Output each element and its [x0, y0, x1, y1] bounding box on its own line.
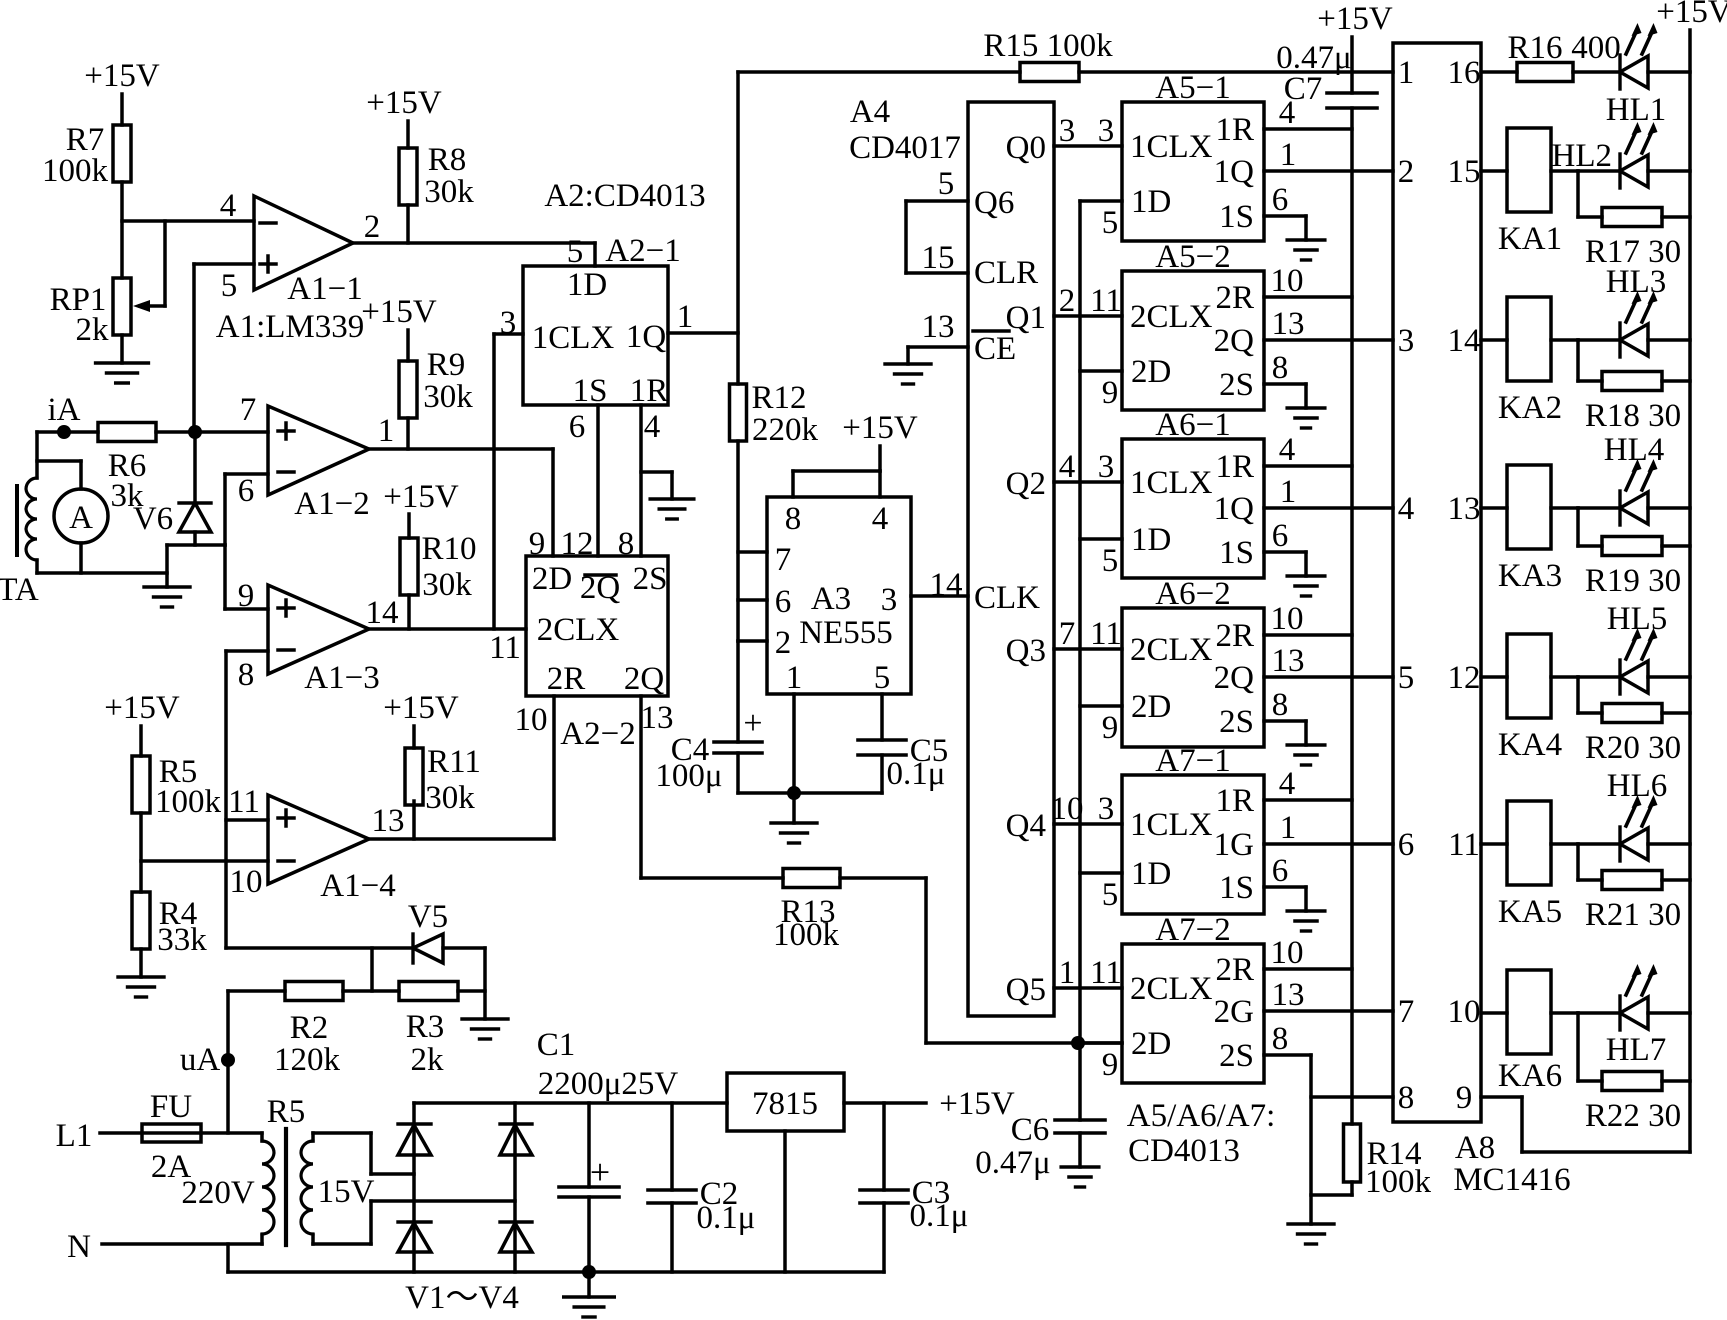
svg-text:+15V: +15V — [842, 410, 918, 446]
svg-text:1S: 1S — [1219, 535, 1254, 571]
wire KA3 to node — [1551, 506, 1578, 510]
pin 11 label — [1090, 283, 1122, 319]
wire HL4 to rail — [1648, 506, 1690, 510]
pin 4 label — [644, 409, 661, 445]
pin 6 label — [569, 409, 586, 445]
label A7-2 — [1155, 912, 1230, 948]
svg-text:1G: 1G — [1214, 827, 1254, 863]
label A6-1 — [1155, 407, 1230, 443]
wire Q2 to A6-1 CLX — [1054, 480, 1122, 484]
label A1-3 — [304, 660, 379, 696]
svg-text:V1～V4: V1～V4 — [405, 1280, 519, 1316]
svg-text:1: 1 — [1280, 137, 1297, 173]
svg-text:3: 3 — [500, 305, 517, 341]
svg-text:R12: R12 — [751, 380, 806, 416]
wire A8 to KA1 — [1481, 169, 1507, 173]
pin 11 label — [1090, 955, 1122, 991]
transformer primary 220V — [181, 1133, 274, 1244]
wire to A1-2 pin6 — [225, 474, 268, 545]
wire NE555 pin1 stub — [792, 694, 796, 793]
svg-text:3: 3 — [1098, 449, 1115, 485]
power +15V (C7) — [1317, 1, 1393, 93]
op-amp A1-2 — [268, 406, 369, 495]
svg-text:2k: 2k — [411, 1042, 445, 1078]
ground (C6) — [1061, 1167, 1099, 1187]
wire A6-1 1S to ground — [1264, 552, 1306, 576]
svg-text:+: + — [590, 1152, 610, 1192]
pin 10 label — [1271, 935, 1304, 971]
wire R22 to rail — [1662, 1079, 1690, 1083]
svg-text:KA4: KA4 — [1498, 727, 1562, 763]
svg-text:5: 5 — [1102, 205, 1119, 241]
svg-text:9: 9 — [1102, 1047, 1119, 1083]
pin 14 label — [366, 595, 399, 631]
svg-text:2CLX: 2CLX — [1130, 299, 1213, 335]
pin 1 label — [378, 413, 395, 449]
wire pin16 to R16 — [1481, 70, 1517, 74]
svg-text:Q3: Q3 — [1006, 633, 1046, 669]
svg-text:13: 13 — [1448, 491, 1481, 527]
ground (RP1) — [96, 363, 149, 383]
wire A1-4 output to 2R — [369, 696, 554, 839]
svg-text:220k: 220k — [752, 412, 819, 448]
svg-text:1: 1 — [677, 299, 694, 335]
flip-flop A6-2 (CD4013) — [1122, 608, 1264, 747]
power +15V (rail) — [1656, 0, 1727, 1152]
op-amp A1-1 — [254, 196, 353, 290]
pin 13 label — [641, 700, 674, 736]
pin 3 label — [1059, 113, 1076, 149]
svg-text:A: A — [69, 500, 93, 536]
svg-text:2k: 2k — [76, 312, 110, 348]
wire A1-4 pin11 — [226, 818, 268, 822]
svg-text:7815: 7815 — [752, 1086, 818, 1122]
svg-text:R19 30: R19 30 — [1585, 563, 1681, 599]
svg-text:2D: 2D — [1131, 1026, 1171, 1062]
svg-text:15: 15 — [922, 240, 955, 276]
ground (A6-1 1S) — [1287, 576, 1325, 596]
resistor R14 — [1344, 1124, 1432, 1200]
wire N — [67, 1229, 262, 1265]
pin 4 label — [1279, 432, 1296, 468]
svg-text:0.47μ: 0.47μ — [975, 1145, 1050, 1181]
pin 14 label — [930, 567, 963, 603]
wire R3 to ground — [458, 948, 485, 1019]
pin 5 label — [221, 268, 238, 304]
wire A5-1 1S to ground — [1264, 216, 1306, 240]
pin 13 label — [372, 803, 405, 839]
svg-text:+15V: +15V — [939, 1086, 1015, 1122]
resistor R20 — [1585, 704, 1681, 767]
wire HL1 to rail — [1648, 70, 1690, 74]
svg-text:8: 8 — [1272, 350, 1289, 386]
svg-text:9: 9 — [1102, 375, 1119, 411]
wire TA bottom — [37, 571, 167, 575]
svg-text:1CLX: 1CLX — [1130, 807, 1213, 843]
wire CE to ground — [908, 347, 968, 364]
svg-text:1Q: 1Q — [626, 319, 667, 355]
wire A1-3 pin9 — [225, 545, 268, 609]
wire data bus — [1078, 201, 1082, 1043]
svg-text:HL2: HL2 — [1552, 138, 1613, 174]
svg-text:+15V: +15V — [383, 479, 459, 515]
svg-text:10: 10 — [230, 864, 263, 900]
wire NE555 pin6 stub — [738, 598, 767, 602]
label CD4013 — [1128, 1133, 1240, 1169]
svg-text:A1:LM339: A1:LM339 — [216, 309, 365, 345]
flip-flop A5-1 (CD4013) — [1122, 102, 1264, 241]
fuse FU — [142, 1089, 201, 1185]
svg-text:R10: R10 — [421, 531, 476, 567]
label A6-2 — [1155, 576, 1230, 612]
wire NE555 pin5 stub — [880, 694, 884, 740]
wire NE555 pin2 stub — [738, 639, 767, 643]
svg-text:1S: 1S — [1219, 199, 1254, 235]
svg-text:400: 400 — [1571, 30, 1621, 66]
svg-text:FU: FU — [150, 1089, 192, 1125]
svg-text:8: 8 — [1272, 687, 1289, 723]
svg-text:7: 7 — [775, 542, 792, 578]
svg-text:5: 5 — [1102, 877, 1119, 913]
svg-text:14: 14 — [1448, 323, 1481, 359]
svg-text:11: 11 — [1448, 827, 1480, 863]
label A5-1 — [1155, 70, 1230, 106]
pin 6 label — [1272, 853, 1289, 889]
junction C1 bottom — [582, 1265, 596, 1279]
svg-text:R3: R3 — [406, 1009, 445, 1045]
svg-text:V6: V6 — [133, 501, 173, 537]
wire node to R19 — [1578, 508, 1602, 546]
wire node to R22 — [1578, 1013, 1602, 1081]
svg-text:KA3: KA3 — [1498, 558, 1562, 594]
pin 10 label — [1271, 601, 1304, 637]
diode V5 — [408, 899, 485, 963]
label A2-2 — [560, 716, 635, 752]
wire A5-1 1Q to A8 — [1264, 169, 1393, 173]
svg-text:13: 13 — [372, 803, 405, 839]
svg-text:8: 8 — [1272, 1021, 1289, 1057]
power +15V (R10) — [383, 479, 459, 538]
pin 5 label — [1102, 205, 1119, 241]
svg-text:MC1416: MC1416 — [1453, 1162, 1570, 1198]
svg-text:2D: 2D — [1131, 354, 1171, 390]
wire D bus to A6-2 2D — [1080, 704, 1122, 708]
svg-text:1: 1 — [378, 413, 395, 449]
svg-text:14: 14 — [366, 595, 399, 631]
relay KA2 — [1498, 297, 1562, 426]
wire D bus to A7-2 2D — [1080, 1041, 1122, 1045]
wire R12 to NE555 — [736, 441, 740, 641]
pin 6 label — [1272, 182, 1289, 218]
wire node to R17 — [1578, 171, 1602, 217]
wire 7815 output — [844, 1101, 926, 1105]
LED HL3 — [1578, 264, 1666, 357]
pin 8 label — [618, 526, 635, 562]
svg-text:1Q: 1Q — [1214, 154, 1255, 190]
LED HL1 — [1606, 23, 1667, 128]
svg-text:A2−1: A2−1 — [605, 233, 680, 269]
svg-text:5: 5 — [1102, 543, 1119, 579]
wire A8 to KA6 — [1481, 1011, 1507, 1015]
label MC1416 — [1453, 1162, 1570, 1198]
svg-text:4: 4 — [872, 501, 889, 537]
svg-text:30k: 30k — [423, 379, 473, 415]
svg-text:7: 7 — [1059, 616, 1076, 652]
power +15V (R9) — [361, 294, 437, 361]
svg-text:2Q: 2Q — [1214, 660, 1255, 696]
resistor R2 — [274, 982, 343, 1079]
wire R2-R3 junction — [370, 948, 374, 991]
svg-text:1: 1 — [1280, 810, 1297, 846]
svg-text:R8: R8 — [428, 142, 467, 178]
svg-text:A1−1: A1−1 — [287, 271, 362, 307]
capacitor C7 — [1276, 40, 1377, 108]
pin 12 label — [561, 526, 594, 562]
svg-text:R9: R9 — [427, 347, 466, 383]
wire A5-2 2S to ground — [1264, 384, 1306, 408]
wire KA4 to node — [1551, 675, 1578, 679]
wire A7-1 1S to ground — [1264, 887, 1306, 911]
diode V3 — [398, 1222, 431, 1252]
svg-text:7: 7 — [1398, 994, 1415, 1030]
pin 2 label — [364, 209, 381, 245]
svg-text:A8: A8 — [1455, 1130, 1495, 1166]
IC A4 CD4017 — [968, 102, 1054, 1016]
svg-text:R16: R16 — [1507, 30, 1562, 66]
ground (A5-2 2S) — [1287, 408, 1325, 428]
node iA — [48, 392, 81, 439]
svg-text:R20 30: R20 30 — [1585, 730, 1681, 766]
svg-text:V5: V5 — [408, 899, 448, 935]
svg-text:Q6: Q6 — [974, 185, 1014, 221]
pin 10 label — [515, 702, 548, 738]
label CD4017 — [849, 130, 961, 166]
svg-text:2Q: 2Q — [624, 661, 665, 697]
svg-text:L1: L1 — [56, 1118, 93, 1154]
pin 13 label — [1272, 643, 1305, 679]
svg-text:100k: 100k — [1365, 1164, 1432, 1200]
capacitor C1 — [537, 1027, 679, 1272]
wire R14 to ground — [1311, 1182, 1352, 1195]
flip-flop A6-1 (CD4013) — [1122, 439, 1264, 578]
svg-text:5: 5 — [567, 234, 584, 270]
relay KA5 — [1498, 801, 1562, 930]
svg-text:A1−4: A1−4 — [320, 868, 395, 904]
svg-text:1: 1 — [1398, 55, 1415, 91]
svg-text:5: 5 — [221, 268, 238, 304]
wire KA1 to node — [1551, 169, 1578, 173]
label A4 — [850, 94, 890, 130]
svg-text:100μ: 100μ — [655, 758, 722, 794]
ground (C1) — [564, 1272, 615, 1317]
svg-text:2S: 2S — [633, 561, 668, 597]
svg-text:1D: 1D — [1131, 856, 1171, 892]
wire D bus to A5-1 1D — [1080, 199, 1122, 203]
svg-text:2Q: 2Q — [1214, 323, 1255, 359]
svg-text:C7: C7 — [1284, 71, 1323, 107]
svg-text:A1−3: A1−3 — [304, 660, 379, 696]
pin 13 label — [1272, 977, 1305, 1013]
pin 8 label — [238, 657, 255, 693]
svg-text:KA6: KA6 — [1498, 1058, 1562, 1094]
wire 1Q to R12 line — [668, 331, 738, 335]
wire A7-2 2R to reset bus — [1264, 967, 1352, 971]
svg-text:1S: 1S — [1219, 870, 1254, 906]
pin 2 label — [1059, 283, 1076, 319]
power +15V (7815 out) — [939, 1086, 1015, 1122]
resistor R8 — [399, 142, 474, 243]
resistor R17 — [1585, 208, 1681, 271]
wire A5-2 2R to reset bus — [1264, 295, 1352, 299]
svg-text:C1: C1 — [537, 1027, 576, 1063]
resistor R18 — [1585, 372, 1681, 435]
junction R6 right — [188, 425, 202, 439]
svg-text:N: N — [67, 1229, 91, 1265]
svg-text:2S: 2S — [1219, 367, 1254, 403]
wire R7 to RP1 — [120, 182, 124, 278]
label A2:CD4013 — [544, 178, 705, 214]
pin 15 label — [922, 240, 955, 276]
pin 10 label — [1051, 791, 1084, 827]
flip-flop A2-1 — [523, 266, 668, 409]
svg-text:R15 100k: R15 100k — [983, 28, 1113, 64]
power +15V (R5) — [104, 690, 180, 756]
wire 1S to 2Q bar — [596, 405, 600, 556]
pin 6 label — [238, 473, 255, 509]
pin 8 label — [1272, 350, 1289, 386]
wire A6-1 1R to reset bus — [1264, 464, 1352, 468]
svg-text:13: 13 — [922, 309, 955, 345]
svg-text:5: 5 — [938, 166, 955, 202]
svg-text:TA: TA — [0, 572, 39, 608]
svg-text:CE: CE — [974, 331, 1016, 367]
svg-text:3: 3 — [1059, 113, 1076, 149]
svg-text:R22 30: R22 30 — [1585, 1098, 1681, 1134]
svg-text:15: 15 — [1448, 154, 1481, 190]
potentiometer RP1 — [50, 278, 165, 348]
svg-text:10: 10 — [1271, 601, 1304, 637]
wire DC- rail — [228, 1270, 884, 1274]
svg-text:2200μ25V: 2200μ25V — [538, 1066, 679, 1102]
wire NE555 bottom — [738, 791, 882, 795]
resistor R19 — [1585, 537, 1681, 600]
pin 3 label — [500, 305, 517, 341]
svg-text:10: 10 — [1448, 994, 1481, 1030]
pin 11 label — [489, 630, 521, 666]
ground (1R/2S) — [650, 499, 694, 519]
ground (2S/R14) — [1288, 1224, 1334, 1244]
svg-text:6: 6 — [1272, 518, 1289, 554]
svg-text:2: 2 — [775, 625, 792, 661]
pin 4 label — [220, 188, 237, 224]
resistor R16 — [1507, 30, 1573, 82]
svg-text:1: 1 — [1059, 955, 1076, 991]
wire A8 to KA4 — [1481, 675, 1507, 679]
wire node to R18 — [1578, 340, 1602, 381]
svg-text:HL1: HL1 — [1606, 92, 1667, 128]
svg-text:A3: A3 — [811, 581, 851, 617]
svg-text:2: 2 — [1059, 283, 1076, 319]
svg-text:CLR: CLR — [974, 255, 1038, 291]
pin 10 label — [230, 864, 263, 900]
svg-text:4: 4 — [1059, 449, 1076, 485]
diode V4 — [500, 1222, 532, 1252]
svg-text:A4: A4 — [850, 94, 890, 130]
svg-text:HL6: HL6 — [1607, 768, 1668, 804]
pin 3 label — [1098, 791, 1115, 827]
svg-text:100k: 100k — [155, 784, 222, 820]
svg-text:2D: 2D — [1131, 689, 1171, 725]
svg-text:10: 10 — [515, 702, 548, 738]
capacitor C6 — [975, 1043, 1105, 1181]
svg-text:3: 3 — [1098, 791, 1115, 827]
svg-text:2: 2 — [364, 209, 381, 245]
resistor R15 — [983, 28, 1113, 82]
svg-text:1D: 1D — [567, 267, 607, 303]
wire Q3 to A6-2 CLX — [1054, 647, 1122, 651]
diode V6 — [133, 432, 211, 545]
capacitor C4 — [655, 641, 762, 794]
pin 13 label — [1272, 306, 1305, 342]
svg-text:uA: uA — [180, 1042, 221, 1078]
IC A8 MC1416 — [1393, 43, 1481, 1122]
bridge right leg — [513, 1103, 517, 1272]
wire pin8 bus to V5 — [226, 946, 413, 950]
svg-text:1: 1 — [1280, 474, 1297, 510]
resistor R10 — [400, 531, 477, 629]
svg-text:Q5: Q5 — [1006, 972, 1046, 1008]
svg-text:30k: 30k — [422, 567, 472, 603]
svg-text:4: 4 — [220, 188, 237, 224]
resistor R7 — [42, 122, 131, 189]
svg-text:R2: R2 — [290, 1010, 329, 1046]
svg-text:CD4017: CD4017 — [849, 130, 961, 166]
wire R21 to rail — [1662, 878, 1690, 882]
wire HL5 to rail — [1648, 675, 1690, 679]
wire Q5 to A7-2 CLX — [1054, 986, 1122, 990]
pin 9 label — [529, 526, 546, 562]
pin 10 label — [1271, 263, 1304, 299]
LED HL2 — [1552, 122, 1658, 188]
relay KA3 — [1498, 465, 1562, 594]
wire R20 to rail — [1662, 711, 1690, 715]
label A2-1 — [605, 233, 680, 269]
pin 4 label — [1059, 449, 1076, 485]
pin 4 label — [1279, 95, 1296, 131]
transformer TA primary — [26, 432, 37, 573]
node uA — [180, 991, 235, 1133]
flip-flop A2-2 — [526, 556, 668, 697]
ground (TA/V6) — [144, 587, 190, 607]
op-amp A1-3 — [268, 585, 369, 674]
label A5-2 — [1155, 239, 1230, 275]
resistor R3 — [399, 982, 458, 1079]
svg-text:3: 3 — [1398, 323, 1415, 359]
wire RP1 to ground — [120, 335, 124, 363]
svg-text:R18 30: R18 30 — [1585, 398, 1681, 434]
label 400 — [1571, 30, 1621, 66]
wire DC+ rail — [414, 1101, 727, 1105]
wire KA6 to node — [1551, 1011, 1578, 1015]
svg-text:R21 30: R21 30 — [1585, 897, 1681, 933]
wire secondary bottom — [313, 1201, 515, 1244]
svg-text:1R: 1R — [1215, 783, 1254, 819]
wire A1-3 pin8 bus — [226, 651, 268, 948]
svg-text:R5: R5 — [267, 1094, 306, 1130]
pin 7 label — [1059, 616, 1076, 652]
label A1-1 — [287, 271, 362, 307]
wire D bus to A6-1 1D — [1080, 537, 1122, 541]
